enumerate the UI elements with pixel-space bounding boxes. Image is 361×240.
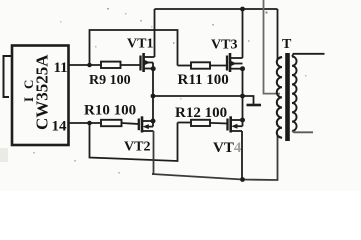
svg-text:R10 100: R10 100 — [84, 103, 136, 119]
resistor R10 — [101, 120, 122, 126]
wire primary bottom join — [278, 136, 283, 138]
svg-text:VT1: VT1 — [127, 37, 153, 52]
wire secondary top lead — [292, 54, 325, 57]
resistor R11 — [191, 62, 210, 68]
wire bridge midpoint rail — [153, 95, 243, 97]
transformer T secondary winding — [292, 57, 297, 131]
transistor VT4 — [228, 116, 246, 132]
wire VT3 drain riser — [242, 9, 244, 58]
ground — [247, 104, 262, 107]
wire primary top riser — [277, 9, 279, 59]
wire hook left of IC — [4, 56, 12, 97]
wire R10 to VT2 gate — [122, 123, 139, 124]
wire primary top join — [278, 57, 283, 59]
wire VT2 source to bottom rail — [152, 131, 154, 174]
transistor VT2 — [139, 116, 156, 132]
wire VT1 drain riser — [154, 9, 156, 57]
wire VT4 drain up leg — [242, 96, 244, 120]
transformer T primary winding — [277, 57, 282, 138]
wire primary center tap riser — [264, 0, 281, 94]
wire VT1 source down leg — [152, 69, 154, 96]
wire secondary bottom lead — [292, 131, 313, 132]
wire VT3 source down leg — [242, 69, 244, 96]
svg-text:14: 14 — [52, 119, 68, 135]
wire link to R11 — [178, 65, 192, 67]
svg-text:R12 100: R12 100 — [175, 105, 227, 121]
wire midpoint to ground — [243, 96, 254, 104]
node top rail junction — [240, 7, 245, 12]
resistor R12 — [191, 120, 210, 126]
node midpoint right — [240, 94, 245, 99]
node midpoint left — [151, 94, 156, 99]
svg-text:11: 11 — [54, 60, 68, 76]
wire pin14 to R10 — [69, 122, 102, 124]
transistor VT1 — [141, 53, 156, 72]
node junction pin14 — [87, 121, 92, 126]
svg-text:VT2: VT2 — [124, 140, 150, 155]
op-amp U1 IC CW3525A box — [12, 46, 69, 146]
wire R9 to VT1 gate — [121, 64, 141, 66]
wire pin14 link down — [90, 123, 178, 162]
wire VT4 source to bottom rail — [241, 131, 243, 180]
svg-text:VT4: VT4 — [213, 140, 242, 156]
wire pin11 link up — [90, 30, 178, 66]
svg-text:T: T — [282, 37, 292, 52]
wire R11 to VT3 gate — [210, 65, 227, 67]
scan speckle noise — [0, 8, 307, 174]
resistor R9 — [101, 62, 121, 68]
svg-text:VT3: VT3 — [211, 38, 237, 53]
transistor VT3 — [227, 53, 245, 72]
node bottom rail junction — [240, 177, 245, 182]
wire link to R12 — [178, 122, 192, 124]
wire bottom rail — [152, 136, 278, 180]
wire top rail — [155, 8, 278, 10]
wire VT2 drain up leg — [152, 96, 154, 121]
transformer core — [285, 53, 290, 141]
svg-text:R9 100: R9 100 — [89, 73, 131, 88]
svg-text:CW3525A: CW3525A — [33, 54, 52, 130]
wire R12 to VT4 gate — [210, 122, 228, 125]
node junction pin11 — [87, 63, 92, 68]
svg-text:R11 100: R11 100 — [178, 72, 229, 88]
wire pin11 to R9 — [69, 64, 102, 66]
